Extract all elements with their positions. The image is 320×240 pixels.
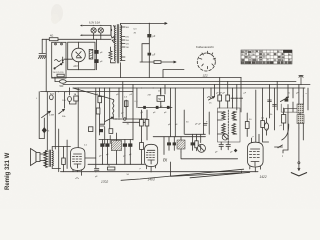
left arrows of lamp box — [81, 25, 83, 26]
vertical feed x=58.7 — [58, 129, 60, 172]
lx support vertical — [163, 137, 165, 155]
wire to arrow right — [161, 61, 176, 63]
electrolytic oval — [264, 123, 268, 130]
winding right upper — [232, 112, 235, 120]
input grid resistor — [98, 97, 102, 103]
resistor right of coil — [245, 122, 249, 129]
bus wire 1 — [52, 77, 241, 79]
tone switch arrow — [59, 92, 65, 114]
heater cap tick 3 — [167, 106, 170, 109]
junction dots buses — [99, 87, 100, 88]
wire drop x=119 — [118, 88, 120, 118]
wire HT with arrow — [140, 23, 167, 25]
screen resistor — [96, 108, 100, 114]
hatch box top lead — [115, 133, 117, 141]
smoothing capacitor Ca (black) — [94, 50, 98, 54]
vertical feed x=67.1 — [66, 140, 68, 169]
wire top of tube — [78, 42, 80, 48]
wire HT drop — [148, 23, 150, 33]
table grid lines — [241, 50, 292, 64]
grid resistor left of tube — [62, 158, 66, 165]
cap tick — [204, 124, 208, 126]
vertical drops right — [288, 85, 308, 110]
terminal bumps on box top — [55, 43, 57, 45]
connector circle — [49, 95, 53, 100]
coupling cap C — [100, 124, 104, 126]
verticals above cluster — [211, 78, 241, 97]
earth chevron — [291, 173, 306, 176]
cap on bottom bus — [95, 169, 99, 171]
ballast resistor hatched — [89, 49, 93, 59]
resistor box — [195, 141, 198, 148]
wire antenna drop — [41, 39, 43, 53]
junction dots bus5 — [48, 91, 49, 92]
resistor Rk box — [89, 127, 93, 132]
wire drops from bus mid — [161, 85, 176, 137]
capacitor to earth (antenna) — [38, 54, 46, 59]
V4 pins — [250, 166, 261, 172]
flexible grid lead (wavy) — [113, 100, 114, 115]
left drop group wires — [52, 77, 55, 82]
drops below top row — [220, 101, 241, 112]
tube V2 envelope — [71, 148, 85, 171]
mica cap blob d — [128, 143, 132, 146]
line y=136.7 — [153, 136, 205, 138]
bus wire 5 (chassis left) — [41, 91, 134, 93]
heater line y=107.5 — [138, 107, 172, 109]
wire tube cathode down — [78, 62, 80, 70]
switch dots bottom right — [277, 147, 278, 148]
volume potentiometer arrow — [42, 111, 51, 118]
cap black blob — [99, 129, 103, 132]
grid line y=117.5 — [113, 115, 147, 120]
V3 anode — [147, 149, 155, 151]
tick cap b — [273, 105, 277, 107]
hatched IF transformer — [177, 140, 185, 149]
V3 grids — [146, 153, 154, 158]
padder capacitor black — [285, 99, 289, 102]
IF hatched transformer left — [111, 141, 121, 151]
trimmer bottom — [219, 142, 223, 150]
heater cap tick 2 — [156, 106, 159, 109]
right mid verticals — [270, 82, 278, 131]
bus wire 4 — [73, 87, 305, 89]
wires joining right column — [288, 96, 303, 150]
tube V3 envelope — [145, 144, 158, 166]
wire top feed y=39 — [42, 38, 111, 40]
cathode return line — [88, 163, 145, 165]
bus wire 2 — [55, 81, 296, 83]
V4 anode — [251, 148, 260, 150]
AC wave symbol — [55, 60, 61, 62]
V3 cathode — [148, 160, 155, 164]
resistor R fuse on top feed — [49, 38, 58, 41]
wire drop x=69.5 — [69, 88, 71, 95]
ac coupling tick — [208, 97, 214, 99]
dotted coil box 1 — [297, 104, 304, 113]
V4 top cap wires — [252, 134, 260, 142]
stub vertical x=136.9 — [136, 88, 138, 108]
resistor left of ground — [261, 121, 265, 128]
V4 grids — [250, 152, 260, 158]
diagonal top-cap wire from bus — [73, 88, 113, 100]
table frame — [241, 50, 292, 64]
loop rectangle tube2-tube3 — [171, 152, 242, 176]
AVC diagonal 2 — [190, 172, 250, 178]
taps — [218, 112, 237, 134]
lamp stub wires — [94, 33, 101, 39]
top row: pot arrow — [209, 97, 215, 101]
output transformer secondary — [52, 151, 53, 167]
black cap 2 — [173, 142, 176, 145]
coupling diamond — [234, 149, 238, 153]
wire transformer secondary bottom to bus — [120, 63, 122, 78]
AVC diagonal 1 — [121, 169, 244, 180]
resistor R2 horizontal — [154, 61, 161, 64]
cap drop wires — [105, 127, 111, 144]
left verticals — [39, 92, 55, 150]
faint scan stain top-left — [51, 4, 63, 22]
wire HT drop to bus — [148, 62, 150, 78]
wires of pair — [141, 110, 147, 140]
wire into tube left — [64, 58, 72, 60]
grid return line 2 — [123, 121, 147, 123]
feed line over filter — [99, 139, 133, 141]
coil box frame — [218, 108, 241, 142]
fuse holder oval — [59, 80, 66, 84]
wire grid resistor — [63, 147, 65, 172]
wire long drop x=80.8 to tube1 — [77, 88, 79, 148]
wire below C1 — [148, 37, 150, 52]
tuning arrow dark — [281, 97, 289, 102]
junction dots bottom bus — [81, 171, 82, 172]
junction dots cathode line — [102, 164, 103, 165]
cap bottom drops — [102, 147, 130, 165]
cathode resistor under pair — [140, 143, 144, 150]
vertical drop x=209 — [208, 112, 210, 134]
bottom bus — [61, 171, 259, 173]
bypass loop wire — [142, 44, 149, 62]
wires below caps — [169, 145, 201, 152]
wire junction circle — [298, 162, 300, 164]
dotted coil box 2 — [297, 115, 304, 124]
AGC resistor box right — [282, 115, 286, 124]
wires drops to caps — [169, 134, 201, 142]
wire pot to speaker line — [39, 138, 44, 140]
mica cap blob c — [123, 143, 127, 146]
speaker — [31, 149, 37, 166]
tube V4 envelope — [248, 142, 264, 167]
heater chain wire — [163, 70, 184, 78]
socket pins — [200, 51, 216, 69]
wire resistor drop — [160, 88, 162, 108]
smoothing capacitor Cb (black) — [94, 59, 98, 63]
curved wire to tube3 — [282, 124, 289, 140]
resistor on bottom bus — [108, 167, 115, 170]
socket box TA — [74, 96, 79, 101]
V4 cathode — [251, 162, 259, 167]
pot contact diamond — [42, 128, 46, 133]
wire drop x=126 — [125, 100, 127, 108]
wire drop x=133 — [132, 85, 134, 140]
dropper resistor diagonal — [111, 35, 115, 42]
mains entry box — [52, 42, 66, 78]
wire transformer top to HT line — [121, 23, 141, 25]
resistor box b — [226, 95, 230, 101]
resistor box a — [218, 95, 222, 101]
ground feed wire — [298, 128, 300, 171]
electrolytic capacitor C1 (black) — [147, 34, 151, 37]
trimmer core circle — [198, 144, 206, 152]
step wires to coils — [281, 104, 298, 112]
table header dark bar — [284, 50, 292, 52]
transformer core — [117, 25, 118, 64]
wire second left vertical — [45, 39, 47, 91]
anode resistor box — [157, 96, 165, 102]
cap top stubs — [102, 140, 130, 144]
rectifier tube V1 envelope — [72, 48, 86, 62]
core dashed — [227, 110, 229, 142]
resistor box — [109, 129, 113, 134]
mixer bias resistor — [125, 101, 129, 107]
wire drop x=109.7 — [109, 88, 111, 130]
black cap 3 — [191, 142, 195, 145]
V2 grid dashes — [73, 157, 82, 162]
primary top wire to lamps — [114, 25, 116, 28]
V3 pins — [147, 166, 156, 172]
mains switch — [55, 64, 62, 68]
dial lamp La1 — [91, 28, 96, 33]
fuse holder oval small — [68, 97, 72, 102]
secondary winding — [121, 25, 122, 61]
output transformer core — [49, 150, 50, 167]
black cap 1 — [167, 142, 171, 145]
V1 anode/cathode internals — [76, 52, 82, 58]
tick cap a — [268, 100, 272, 102]
socket dashed circle — [197, 53, 215, 71]
transformer to tube1 wires — [52, 147, 70, 169]
heater cap tick 1 — [143, 106, 146, 109]
winding lower — [222, 124, 225, 135]
speaker wires — [40, 151, 46, 167]
antenna right — [299, 76, 303, 85]
dial lamp La2 — [98, 28, 103, 33]
resistor boxes pair right — [140, 120, 144, 127]
winding upper — [222, 112, 225, 120]
mica cap blob a — [100, 143, 104, 146]
volume feed arrow diagonal — [105, 117, 114, 122]
wire drop x=104.5 — [104, 88, 106, 125]
lamp box outline — [83, 26, 111, 36]
bottom right link wires — [278, 145, 288, 153]
primary winding — [114, 26, 115, 61]
table cell entries — [242, 51, 244, 52]
heater dropper resistor zigzag — [109, 51, 112, 59]
winding right lower — [232, 124, 235, 135]
electrolytic capacitor C2 (black) — [148, 53, 152, 56]
wire drop x=99.6 — [99, 88, 101, 135]
line y=134.3 — [185, 133, 205, 135]
bus wire 3 — [63, 84, 310, 86]
wire long drop x=95.8 — [95, 88, 97, 168]
trimmer caps — [231, 96, 243, 101]
wire drop x=122.8 — [122, 82, 124, 118]
wire C2 to bottom rail — [148, 56, 150, 63]
bottom rail with resistor — [140, 61, 154, 63]
V2 pin wires — [73, 170, 82, 176]
connector circle small — [124, 118, 126, 120]
rectifier enclosure box — [68, 42, 95, 69]
tap resistor inside box — [57, 74, 64, 77]
wire lamp box to transformer — [110, 26, 113, 36]
output transformer primary zigzag — [44, 151, 48, 168]
arrow voltage selector — [62, 57, 64, 62]
junction dots lamps — [93, 25, 94, 26]
V2 cathode — [74, 164, 81, 168]
mica cap blob b — [105, 143, 109, 146]
secondary taps — [121, 27, 125, 61]
tube1 anode link — [85, 157, 96, 159]
V2 anode — [74, 153, 82, 155]
osc grid feed vertical — [255, 90, 257, 142]
osc trimmer circle — [222, 134, 228, 140]
